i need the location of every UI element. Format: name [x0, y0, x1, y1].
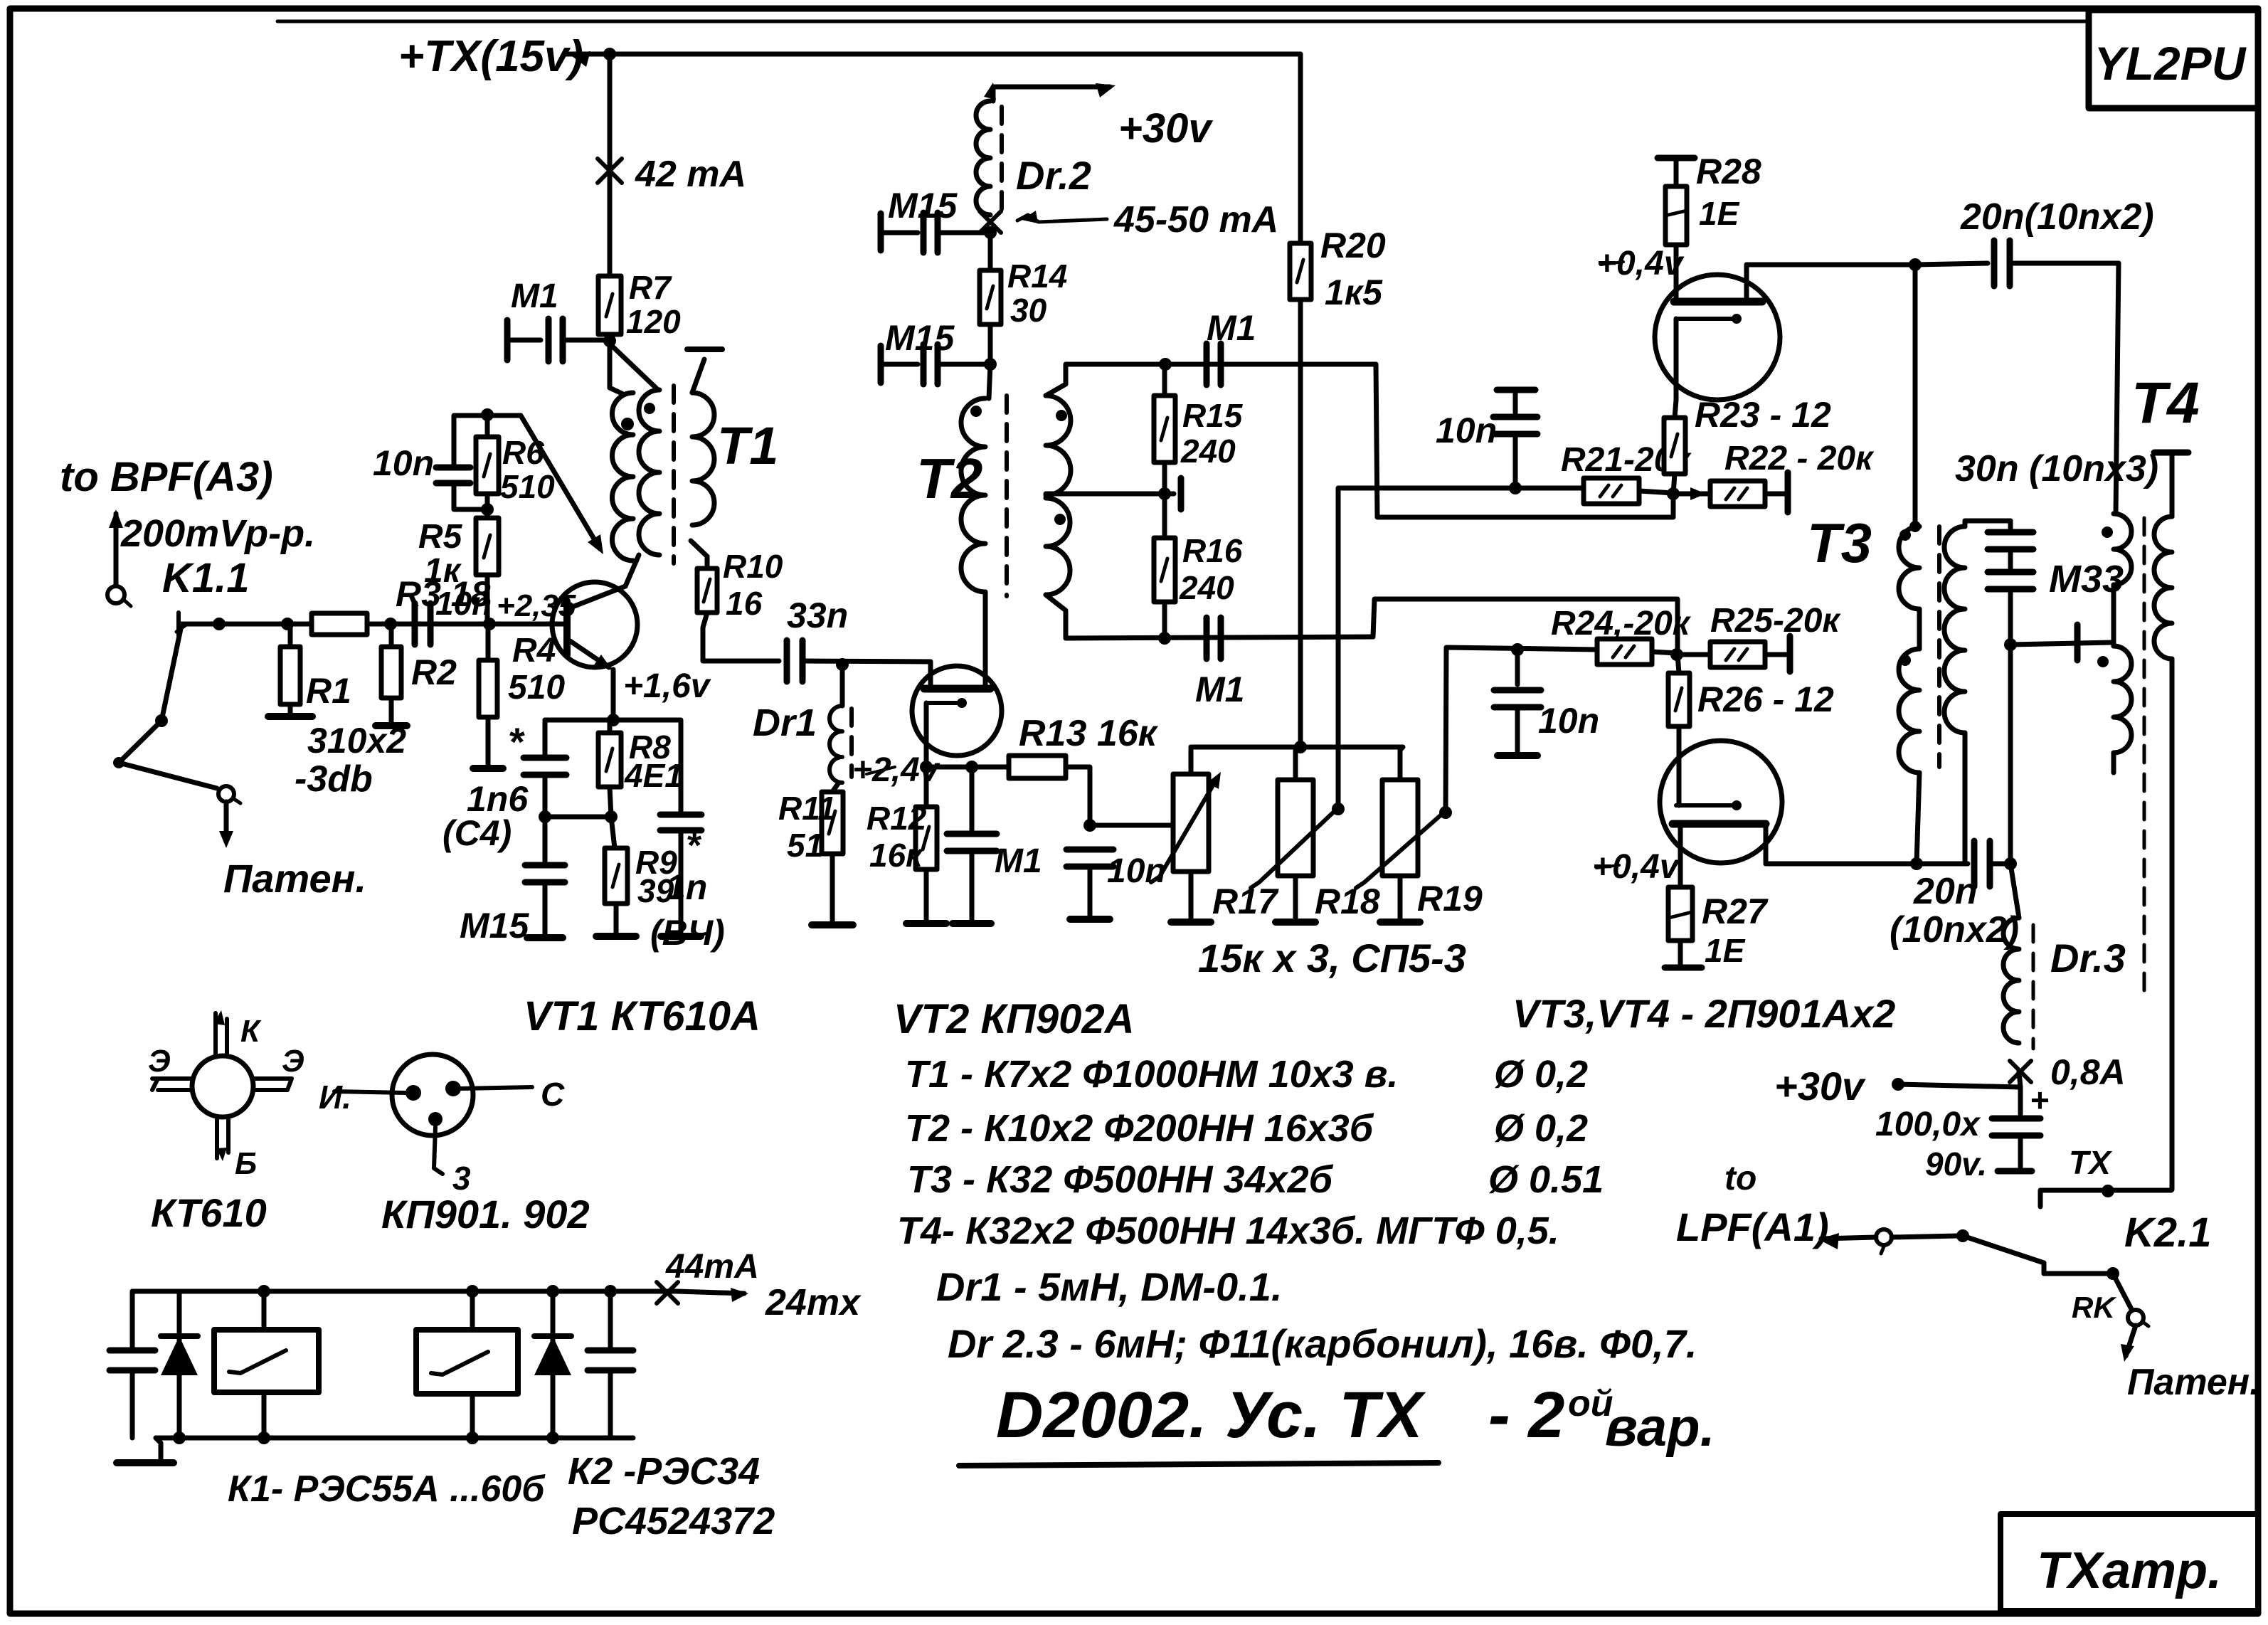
transformer T3 primary upper [1899, 526, 1919, 609]
svg-text:R28: R28 [1696, 152, 1761, 191]
R19 wiper node [1439, 806, 1452, 819]
svg-text:Т4- К32х2 Ф500НН 14х3б. МГ: Т4- К32х2 Ф500НН 14х3б. МГТФ 0,5. [897, 1210, 1559, 1252]
wire R13 to pots [1066, 767, 1172, 825]
wire T4 secondary to K2.1 [2170, 659, 2175, 1190]
svg-text:Ø 0,2: Ø 0,2 [1494, 1107, 1588, 1150]
resistor R4 510 [479, 660, 497, 717]
T3 core [1937, 526, 1941, 767]
svg-text:to: to [1724, 1160, 1756, 1197]
svg-text:YL2PU: YL2PU [2094, 37, 2247, 90]
R18 wiper node [1332, 803, 1345, 815]
resistor R9 39 [605, 848, 627, 904]
wire K1.1 to lower contact [119, 721, 217, 788]
resistor R6 510 [476, 437, 499, 494]
svg-text:310х2: 310х2 [307, 721, 406, 761]
ground R11 [830, 854, 835, 922]
transformer T3 secondary [1944, 526, 1965, 733]
svg-text:+30v: +30v [1118, 105, 1213, 152]
svg-text:М1: М1 [995, 842, 1042, 880]
T2 center tap [1046, 492, 1174, 497]
svg-text:33n: 33n [787, 596, 848, 635]
svg-text:1n: 1n [666, 867, 707, 907]
YL2PU title box [2089, 10, 2258, 108]
connector K1.1 lower contact [218, 786, 234, 802]
transformer T1 feedback winding [613, 346, 658, 390]
svg-text:TXamp.: TXamp. [2037, 1542, 2222, 1599]
svg-text:R25-20к: R25-20к [1710, 602, 1841, 640]
svg-text:30n (10nх3): 30n (10nх3) [1955, 448, 2158, 489]
svg-text:R10: R10 [723, 548, 783, 585]
VT4 channel [1676, 803, 1737, 808]
capacitor 10n (R24 node) [1511, 643, 1524, 656]
VT3 gate lead [1674, 245, 1679, 302]
svg-text:15к х 3, СП5-3: 15к х 3, СП5-3 [1198, 936, 1466, 980]
choke Dr3 [2003, 918, 2019, 1043]
svg-text:R27: R27 [1702, 891, 1769, 931]
capacitor 10n (R21 node) [1497, 387, 1535, 393]
resistor R1 [280, 647, 300, 704]
VT1 collector [567, 586, 625, 609]
svg-text:+1,6v: +1,6v [623, 667, 711, 705]
T2 core [1005, 396, 1009, 596]
svg-text:R14: R14 [1007, 258, 1067, 295]
ground R18 [1293, 876, 1298, 919]
svg-text:Dr.3: Dr.3 [2050, 936, 2126, 980]
svg-text:Dr.2: Dr.2 [1016, 153, 1091, 198]
svg-text:K2.1: K2.1 [2124, 1210, 2212, 1256]
svg-text:Патен.: Патен. [2127, 1362, 2260, 1403]
node R6 bottom [481, 503, 494, 516]
resistor R13 16k [1009, 756, 1066, 778]
svg-text:44mA: 44mA [665, 1248, 759, 1286]
VT4 drain lead [1764, 824, 1769, 864]
T1 secondary top terminal [692, 359, 704, 393]
node R7 bottom junction [603, 334, 616, 347]
svg-text:T2: T2 [916, 447, 982, 510]
ground relay [156, 1438, 161, 1460]
wire R20 to pot bus [1298, 300, 1303, 747]
wire R10 down [703, 613, 779, 661]
capacitor relay right [608, 1291, 613, 1347]
resistor R14 30 [988, 233, 993, 270]
svg-text:М15: М15 [885, 318, 955, 358]
T3 primary bottom to drain bus [1917, 773, 1919, 864]
transformer T4 primary [2114, 514, 2131, 585]
svg-text:Патен.: Патен. [223, 856, 366, 901]
wire source node [926, 765, 1009, 770]
wire tap node to T4 tap [2010, 642, 2111, 645]
svg-text:вар.: вар. [1605, 1397, 1715, 1458]
svg-text:20n(10nх2): 20n(10nх2) [1960, 196, 2154, 238]
node R6 top [481, 408, 494, 421]
node R8 bottom [610, 787, 611, 817]
wire to T1 primary [608, 341, 613, 356]
ground electrolytic [2018, 1136, 2023, 1168]
svg-text:Т2 - К10х2 Ф200НН 16х3б: Т2 - К10х2 Ф200НН 16х3б [905, 1107, 1374, 1150]
svg-text:+: + [2030, 1081, 2050, 1118]
svg-text:24тх: 24тх [765, 1282, 862, 1323]
wire 33n to VT2 gate [802, 661, 931, 662]
svg-text:R11: R11 [778, 790, 836, 827]
transformer T2 secondary upper [1046, 396, 1071, 495]
transformer T1 primary winding [608, 344, 613, 388]
wire relay top bus [132, 1289, 677, 1294]
resistor R16 240 [1154, 538, 1175, 602]
potentiometer R18 [1278, 780, 1313, 876]
T4 core [2143, 518, 2146, 996]
R18 top lead [1293, 747, 1298, 780]
wire M33 bottom to tap node [2008, 589, 2013, 645]
svg-text:Б: Б [235, 1146, 257, 1181]
svg-text:Dr1 - 5мН, DМ-0.1.: Dr1 - 5мН, DМ-0.1. [936, 1264, 1282, 1309]
resistor R15 240 [1154, 396, 1175, 462]
svg-text:Dr1: Dr1 [753, 702, 817, 744]
svg-text:LPF(A1): LPF(A1) [1676, 1205, 1829, 1249]
ground R28 [1658, 155, 1695, 162]
svg-text:R2: R2 [411, 652, 457, 692]
T3 secondary bottom lead [1963, 733, 1968, 864]
svg-text:+TX(15v): +TX(15v) [398, 32, 583, 81]
relay K2 coil box [470, 1291, 475, 1330]
ground R17 [1189, 872, 1194, 919]
wire T2 to VT2 drain [983, 592, 988, 687]
VT4 bottom bar [1673, 820, 1766, 828]
svg-text:T4: T4 [2131, 371, 2200, 435]
svg-text:R20: R20 [1320, 226, 1386, 265]
svg-text:0,8A: 0,8A [2050, 1052, 2126, 1092]
VT3 top bar [1674, 298, 1762, 306]
capacitor 10n input [412, 603, 418, 645]
svg-text:K1.1: K1.1 [162, 555, 250, 601]
svg-text:- 2: - 2 [1488, 1379, 1564, 1451]
VT3 drain lead [1744, 265, 1749, 302]
wire +TX rail [569, 51, 590, 67]
svg-text:VT3,VT4 - 2П901Ах2: VT3,VT4 - 2П901Ах2 [1512, 991, 1895, 1036]
wire VT4 drain bus [1766, 862, 1917, 867]
resistor R24 20k [1597, 639, 1652, 665]
VT4 gate lead [1677, 726, 1682, 772]
ground 10n [1088, 867, 1093, 916]
svg-text:+2,35: +2,35 [497, 588, 576, 623]
potentiometer R17 [1173, 774, 1209, 872]
transistor VT3 2P901A [1655, 275, 1780, 400]
wire R19 riser to R24 bus [1446, 647, 1597, 812]
VT2 gate bar [924, 685, 990, 693]
svg-text:-3db: -3db [295, 758, 373, 800]
svg-text:Э: Э [148, 1044, 171, 1079]
svg-text:РС4524372: РС4524372 [572, 1500, 775, 1542]
svg-text:T3: T3 [1807, 512, 1872, 574]
svg-text:D2002. Ус. ТХ: D2002. Ус. ТХ [996, 1379, 1426, 1451]
transformer T4 secondary [2154, 517, 2172, 659]
svg-text:М15: М15 [460, 906, 529, 946]
capacitor M1 source bypass [970, 767, 975, 831]
T2 secondary top lead [1046, 364, 1376, 396]
svg-text:R26 - 12: R26 - 12 [1697, 679, 1834, 719]
svg-text:R7: R7 [629, 269, 672, 306]
svg-text:R6: R6 [502, 434, 544, 471]
capacitor 33n [784, 640, 790, 682]
svg-text:1Е: 1Е [1699, 195, 1740, 232]
wire T4 primary bottom [2111, 753, 2116, 773]
wire relay bottom bus [156, 1436, 633, 1441]
capacitor M15 (emitter) [543, 817, 548, 862]
ground R2 [389, 698, 394, 724]
connector K1.1 upper contact [107, 586, 124, 603]
svg-text:10n: 10n [1538, 701, 1599, 741]
svg-text:1к5: 1к5 [1325, 272, 1383, 312]
resistor R8 4E1 [598, 733, 621, 787]
svg-text:M1: M1 [1207, 308, 1256, 348]
resistor R25 20k [1677, 652, 1710, 657]
capacitor 20n bottom [1971, 841, 1978, 886]
svg-text:С: С [541, 1076, 565, 1113]
svg-text:16к: 16к [869, 837, 924, 874]
package KT610 drawing [192, 1056, 253, 1117]
svg-text:51: 51 [787, 827, 823, 864]
VT1 emitter [567, 639, 609, 667]
switch K2.1 arm [1963, 1236, 2044, 1263]
connector K2.1 pole [1876, 1229, 1892, 1245]
resistor R23 12 [1664, 418, 1685, 474]
capacitor 100.0x 90v electrolytic [2018, 1087, 2023, 1114]
capacitor 10n (R13 node) [1066, 847, 1113, 853]
T3 secondary top lead [1963, 521, 1968, 526]
wire lower drive staircase [1373, 599, 1678, 655]
svg-text:R18: R18 [1315, 882, 1380, 921]
wire T3 primary top [1913, 265, 1918, 522]
TXamp title box [2001, 1514, 2258, 1611]
svg-text:(10nх2): (10nх2) [1890, 909, 2019, 951]
svg-text:R22 - 20к: R22 - 20к [1724, 440, 1875, 477]
svg-text:Ø 0.51: Ø 0.51 [1488, 1158, 1604, 1201]
svg-text:К1- РЭС55А ...60б: К1- РЭС55А ...60б [228, 1468, 546, 1510]
svg-text:4Е1: 4Е1 [624, 757, 683, 794]
svg-text:К: К [240, 1014, 262, 1049]
ground R9 [614, 904, 619, 933]
svg-text:100,0х: 100,0х [1875, 1106, 1981, 1143]
relay K1 coil box [262, 1291, 267, 1330]
svg-text:R13 16к: R13 16к [1019, 713, 1159, 754]
capacitor relay left [130, 1291, 135, 1347]
svg-text:R1: R1 [306, 671, 351, 711]
current mark 42mA [598, 159, 622, 183]
package KP901/902 drawing [392, 1054, 473, 1136]
svg-text:30: 30 [1010, 292, 1047, 329]
resistor R3 18 [312, 613, 367, 635]
choke Dr2 [993, 87, 1110, 101]
svg-text:Т1 - К7х2 Ф1000НМ 10х3 в.: Т1 - К7х2 Ф1000НМ 10х3 в. [905, 1053, 1398, 1096]
capacitor M1 bottom coupling [1204, 618, 1210, 659]
svg-text:VT2 КП902А: VT2 КП902А [894, 996, 1135, 1042]
node R21-R22-R23 [1667, 487, 1680, 500]
ground R12 [924, 869, 929, 921]
VT2 channel [926, 701, 962, 705]
resistor R27 1E [1668, 887, 1692, 941]
resistor R26 12 [1668, 673, 1690, 726]
choke Dr1 [840, 665, 845, 706]
svg-text:R23 - 12: R23 - 12 [1695, 395, 1831, 435]
wire upper drive staircase [1376, 364, 1673, 517]
transformer T2 primary [961, 398, 985, 592]
resistor R20 1k5 [1298, 54, 1303, 243]
current mark 0.8A [2010, 1061, 2031, 1082]
svg-text:M1: M1 [511, 277, 558, 315]
transistor VT4 2P901A [1660, 741, 1782, 863]
svg-text:Э: Э [282, 1044, 304, 1079]
wire input line [176, 613, 181, 635]
svg-text:10n: 10n [373, 443, 434, 483]
wire R18 riser to R21 bus [1338, 488, 1584, 809]
wire to Paten bottom [2126, 1325, 2136, 1356]
svg-text:45-50 mA: 45-50 mA [1113, 199, 1278, 240]
svg-text:R12: R12 [867, 800, 927, 837]
diode VD2 [551, 1291, 556, 1438]
transformer T3 primary lower [1899, 649, 1919, 773]
svg-text:*: * [687, 825, 702, 867]
current mark 45-50mA [980, 211, 1001, 233]
svg-text:200mVp-p.: 200mVp-p. [120, 512, 315, 555]
VT3 source to R23 [1675, 400, 1676, 418]
svg-text:20n: 20n [1913, 871, 1978, 912]
switch K1.1 arm [155, 714, 168, 727]
svg-text:120: 120 [626, 303, 681, 340]
VT3 channel [1676, 317, 1737, 321]
ground R27 [1678, 941, 1683, 965]
svg-text:Dr 2.3 - 6мН; Ф11(карбонил),: Dr 2.3 - 6мН; Ф11(карбонил), 16в. Ф0,7. [948, 1321, 1697, 1366]
svg-text:R24,-20к: R24,-20к [1551, 605, 1692, 642]
wire R5 to base line [485, 575, 490, 624]
svg-text:10n: 10n [1436, 411, 1497, 450]
svg-text:R16: R16 [1182, 532, 1243, 569]
svg-text:510: 510 [508, 669, 565, 706]
resistor R12 16k [924, 767, 929, 807]
svg-text:R4: R4 [512, 632, 556, 669]
ground 1n [679, 831, 684, 933]
ground R19 [1398, 876, 1403, 919]
svg-text:42 mA: 42 mA [635, 154, 746, 195]
svg-text:ТХ: ТХ [2069, 1144, 2112, 1181]
capacitor 1n (V4) [613, 720, 681, 811]
svg-text:240: 240 [1180, 433, 1236, 470]
wire Dr2 node to T2 [989, 364, 990, 398]
svg-text:(С4): (С4) [443, 813, 512, 853]
transistor VT2 KP902A [912, 666, 1002, 756]
svg-text:КТ610: КТ610 [151, 1190, 267, 1235]
svg-text:RK: RK [2072, 1291, 2116, 1324]
node R24-R25-R26 [1670, 648, 1683, 661]
resistor R28 1E [1665, 186, 1687, 245]
T4 secondary top terminal [2154, 450, 2188, 456]
ground M1 [970, 851, 975, 921]
svg-text:240: 240 [1179, 569, 1234, 606]
svg-text:R15: R15 [1182, 397, 1244, 434]
wire tap diagonal [487, 413, 521, 418]
R17 top lead [1189, 747, 1194, 774]
ground 10n R24 [1515, 707, 1520, 753]
wire to T4 primary top [2116, 263, 2119, 514]
svg-text:VT1 КТ610А: VT1 КТ610А [524, 993, 761, 1039]
wire 1n6 to R9 node [543, 776, 548, 817]
svg-text:R19: R19 [1417, 879, 1483, 919]
svg-text:T1: T1 [717, 416, 778, 475]
svg-text:Ø 0,2: Ø 0,2 [1494, 1053, 1588, 1096]
wire emitter node [611, 669, 616, 720]
svg-text:Т3 - К32 Ф500НН 34х2б: Т3 - К32 Ф500НН 34х2б [907, 1158, 1334, 1201]
svg-text:КП901. 902: КП901. 902 [381, 1192, 590, 1237]
svg-text:+30v: +30v [1774, 1064, 1866, 1108]
svg-text:К2 -РЭС34: К2 -РЭС34 [568, 1450, 760, 1493]
ground M15 [543, 882, 548, 935]
wire TX line [2040, 1190, 2171, 1207]
ground R4 [486, 717, 491, 766]
svg-text:10n: 10n [435, 585, 492, 622]
svg-text:10n: 10n [1107, 852, 1166, 890]
svg-text:R5: R5 [418, 518, 463, 556]
wire tap node down to drain bus [2008, 645, 2013, 864]
resistor R11 51 [832, 783, 839, 792]
svg-text:И.: И. [319, 1079, 351, 1116]
svg-text:M1: M1 [1195, 669, 1244, 709]
resistor R5 1k [476, 518, 499, 575]
transistor VT1 KT610A [552, 582, 637, 667]
T1 core [672, 386, 676, 563]
capacitor M1 top coupling [1204, 344, 1210, 385]
ground R1 [288, 704, 293, 714]
wire LPF arrow [1818, 1233, 1839, 1249]
transformer T2 secondary lower [1046, 498, 1070, 595]
transformer T1 secondary winding [692, 393, 714, 525]
resistor R2 [381, 647, 401, 698]
wire to Paten [224, 802, 229, 842]
resistor R21 20k [1584, 478, 1639, 504]
wire 24TX feed [677, 1291, 744, 1293]
svg-text:1Е: 1Е [1705, 932, 1746, 969]
potentiometer R19 [1382, 780, 1418, 876]
node VT2 source [920, 761, 933, 773]
wire R7 feed [608, 54, 613, 276]
wire VT3 drain bus [1747, 263, 1915, 268]
svg-text:510: 510 [500, 468, 555, 505]
svg-text:90v.: 90v. [1925, 1145, 1987, 1182]
resistor R7 120 [598, 276, 621, 334]
resistor R22 20k [1690, 487, 1706, 500]
wire T1 to VT1 collector [625, 555, 639, 586]
wire pot bus [1191, 745, 1300, 750]
T2 secondary bottom lead [1046, 595, 1373, 638]
svg-text:R17: R17 [1212, 882, 1279, 921]
R19 top lead [1398, 750, 1403, 780]
svg-text:to BPF(A3): to BPF(A3) [60, 454, 273, 500]
resistor R10 16 [691, 541, 707, 556]
VT4 source lead [1678, 824, 1683, 887]
capacitor 20n top [1991, 240, 1998, 286]
svg-text:16: 16 [726, 585, 763, 622]
diode VD1 [177, 1291, 182, 1438]
wire BPF arrow [114, 514, 119, 586]
